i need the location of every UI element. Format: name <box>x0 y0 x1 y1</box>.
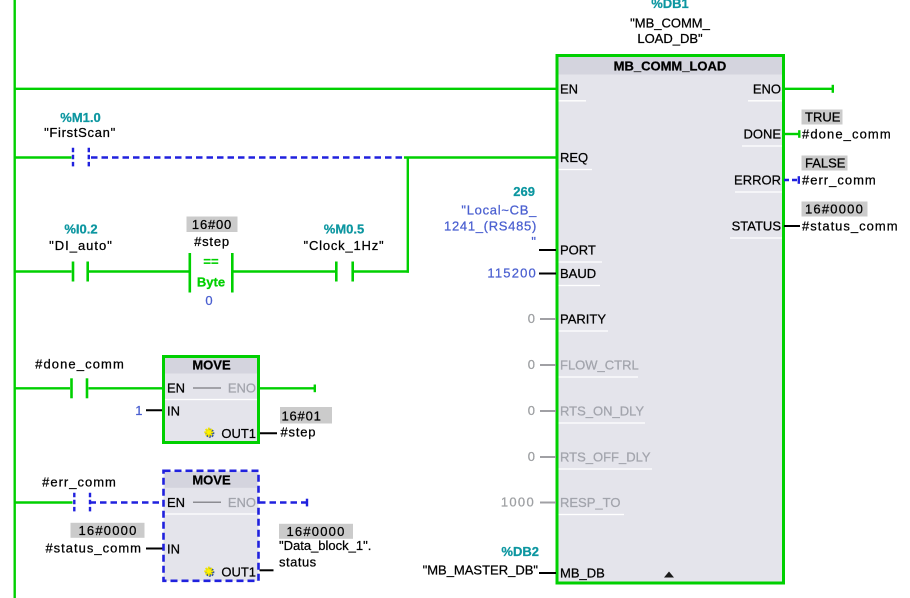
svg-text:#done_comm: #done_comm <box>802 126 892 141</box>
svg-text:1000: 1000 <box>501 495 535 510</box>
svg-text:#step: #step <box>194 234 230 249</box>
svg-text:OUT1: OUT1 <box>221 565 256 580</box>
svg-text:MOVE: MOVE <box>192 358 231 373</box>
svg-text:%M0.5: %M0.5 <box>324 222 364 237</box>
svg-text:PARITY: PARITY <box>560 312 606 327</box>
svg-text:MOVE: MOVE <box>192 473 231 488</box>
svg-text:0: 0 <box>205 293 212 308</box>
svg-text:%M1.0: %M1.0 <box>60 110 100 125</box>
svg-text:"Local~CB_: "Local~CB_ <box>461 203 537 218</box>
svg-text:115200: 115200 <box>487 266 537 281</box>
svg-text:Byte: Byte <box>197 275 225 290</box>
svg-text:16#01: 16#01 <box>282 408 322 423</box>
svg-text:1: 1 <box>135 403 142 418</box>
svg-text:"Clock_1Hz": "Clock_1Hz" <box>304 238 385 253</box>
svg-text:REQ: REQ <box>560 150 588 165</box>
svg-text:"DI_auto": "DI_auto" <box>49 238 113 253</box>
svg-text:FLOW_CTRL: FLOW_CTRL <box>560 358 639 373</box>
svg-text:MB_COMM_LOAD: MB_COMM_LOAD <box>614 59 727 74</box>
svg-text:#status_comm: #status_comm <box>802 218 899 233</box>
svg-text:269: 269 <box>513 184 535 199</box>
svg-text:#err_comm: #err_comm <box>42 474 117 489</box>
svg-text:#step: #step <box>281 425 317 440</box>
svg-text:#err_comm: #err_comm <box>802 172 877 187</box>
svg-text:16#0000: 16#0000 <box>805 202 864 217</box>
svg-text:#status_comm: #status_comm <box>45 541 142 556</box>
svg-text:0: 0 <box>528 403 535 418</box>
svg-text:ENO: ENO <box>228 495 256 510</box>
svg-text:EN: EN <box>167 495 185 510</box>
svg-text:"Data_block_1".: "Data_block_1". <box>279 538 371 553</box>
svg-text:ERROR: ERROR <box>734 173 781 188</box>
svg-text:EN: EN <box>560 82 578 97</box>
svg-text:BAUD: BAUD <box>560 266 596 281</box>
svg-text:LOAD_DB": LOAD_DB" <box>637 31 703 46</box>
svg-text:RTS_ON_DLY: RTS_ON_DLY <box>560 404 644 419</box>
svg-text:%DB2: %DB2 <box>501 544 539 559</box>
svg-text:16#0000: 16#0000 <box>286 524 345 539</box>
svg-text:DONE: DONE <box>743 127 781 142</box>
svg-text:"MB_COMM_: "MB_COMM_ <box>630 16 711 31</box>
svg-text:MB_DB: MB_DB <box>560 566 605 581</box>
svg-text:0: 0 <box>528 311 535 326</box>
svg-text:PORT: PORT <box>560 243 596 258</box>
svg-text:1241_(RS485): 1241_(RS485) <box>444 219 537 234</box>
svg-text:#done_comm: #done_comm <box>35 356 125 371</box>
svg-text:==: == <box>203 254 219 269</box>
svg-text:%I0.2: %I0.2 <box>64 222 97 237</box>
svg-text:status: status <box>279 555 317 570</box>
svg-text:IN: IN <box>167 403 180 418</box>
svg-text:16#0000: 16#0000 <box>78 523 137 538</box>
svg-text:0: 0 <box>528 357 535 372</box>
svg-text:%DB1: %DB1 <box>651 0 689 11</box>
svg-text:FALSE: FALSE <box>805 156 846 171</box>
svg-text:"FirstScan": "FirstScan" <box>44 125 116 140</box>
svg-text:ENO: ENO <box>228 381 256 396</box>
svg-text:EN: EN <box>167 381 185 396</box>
svg-text:OUT1: OUT1 <box>221 426 256 441</box>
svg-text:TRUE: TRUE <box>805 110 841 125</box>
svg-text:RESP_TO: RESP_TO <box>560 495 620 510</box>
svg-text:ENO: ENO <box>753 82 781 97</box>
svg-text:0: 0 <box>528 449 535 464</box>
svg-text:"MB_MASTER_DB": "MB_MASTER_DB" <box>423 562 539 577</box>
svg-text:IN: IN <box>167 542 180 557</box>
svg-text:": " <box>531 234 536 249</box>
svg-text:STATUS: STATUS <box>732 219 782 234</box>
svg-text:RTS_OFF_DLY: RTS_OFF_DLY <box>560 450 651 465</box>
svg-text:16#00: 16#00 <box>192 217 232 232</box>
